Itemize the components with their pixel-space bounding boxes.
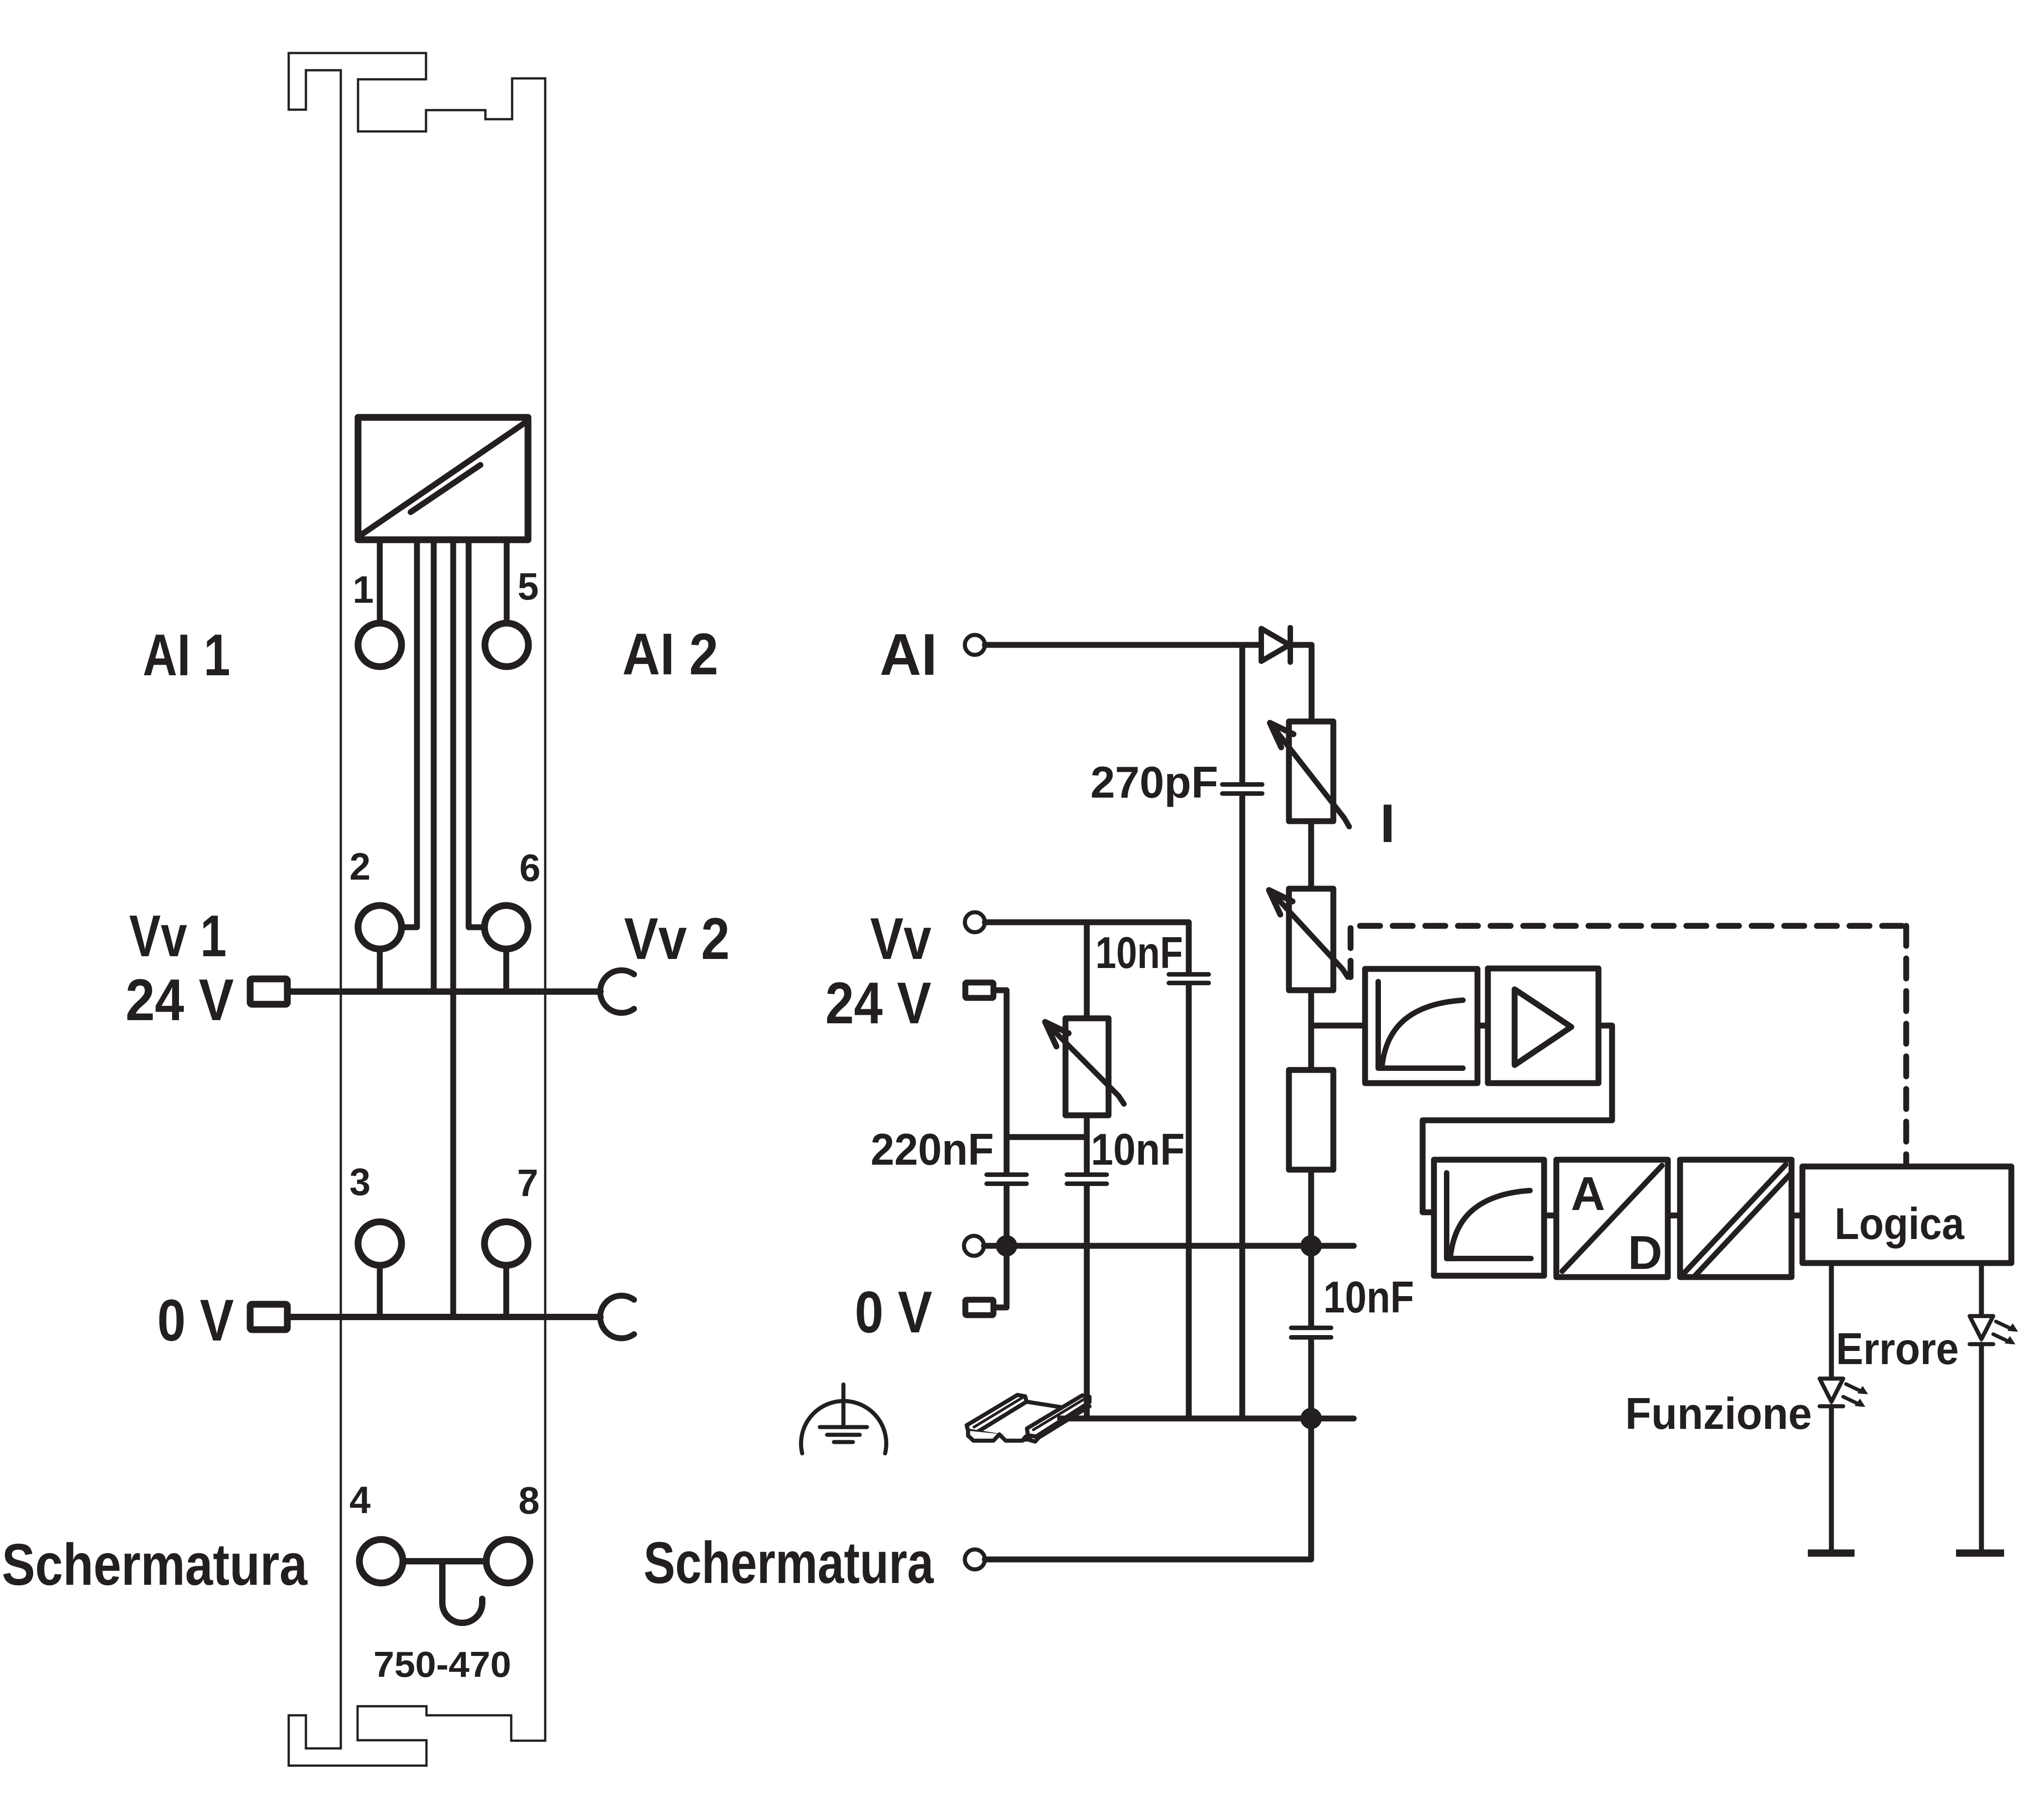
AI terminal circle bbox=[965, 635, 985, 655]
wire 270pF to earth rail bbox=[1240, 796, 1245, 1418]
svg-text:0 V: 0 V bbox=[157, 1287, 234, 1353]
svg-text:10nF: 10nF bbox=[1323, 1272, 1414, 1322]
24V bus bar (module) bbox=[291, 988, 601, 995]
pin 7 clamp circle bbox=[484, 1222, 528, 1265]
variable resistor R4 arrow bbox=[1048, 1025, 1124, 1104]
pin 1 clamp circle bbox=[358, 623, 402, 667]
electronics block with diagonal (module) bbox=[358, 417, 528, 540]
0V female contact arc (module right) bbox=[600, 1296, 634, 1338]
wire Schermatura to earth rail bbox=[985, 1418, 1311, 1559]
wire Logica to Errore LED bbox=[1979, 1263, 1984, 1316]
wire pin 7 to 0V bus bbox=[504, 1265, 509, 1314]
0V male contact square (module) bbox=[250, 1304, 287, 1330]
junction node 0V-main column bbox=[1301, 1235, 1322, 1256]
wire Vv terminal to 10nF cap 1 bbox=[985, 922, 1189, 973]
variable resistor R2 arrow bbox=[1272, 892, 1348, 977]
svg-text:Schermatura: Schermatura bbox=[2, 1531, 308, 1597]
variable resistor R2 (gain adjust) bbox=[1289, 889, 1333, 990]
diode D1 cathode bar bbox=[1288, 628, 1293, 662]
svg-text:750-470: 750-470 bbox=[373, 1644, 511, 1684]
wire F1 to amplifier bbox=[1477, 1023, 1488, 1029]
wire diode cathode to main column bbox=[1291, 645, 1312, 721]
isolation double diagonal bbox=[1685, 1165, 1790, 1275]
branch Vv to variable resistor R4 bbox=[1084, 922, 1090, 1018]
svg-text:Vv 1: Vv 1 bbox=[129, 903, 227, 969]
wire pin 3 to 0V bus bbox=[377, 1265, 383, 1314]
resistor R3 bbox=[1289, 1070, 1333, 1170]
wire block to 24V bus (bundle line 2) bbox=[431, 540, 437, 989]
svg-text:I: I bbox=[1380, 793, 1395, 854]
wire Funzione LED to ground bbox=[1829, 1406, 1834, 1553]
LED Errore symbol bbox=[1970, 1316, 1993, 1339]
wire 10nF C3 to earth rail bbox=[1308, 1340, 1314, 1418]
Schermatura terminal circle bbox=[965, 1549, 985, 1569]
filter F2 curve bbox=[1451, 1191, 1530, 1254]
svg-text:7: 7 bbox=[517, 1162, 538, 1204]
module body left edge bbox=[340, 70, 342, 1748]
wire pin 6 to 24V bus bbox=[504, 949, 509, 989]
wire tap to filter 1 bbox=[1311, 1023, 1365, 1029]
svg-text:Logica: Logica bbox=[1835, 1199, 1965, 1249]
wire Errore LED to ground bbox=[1979, 1344, 1984, 1553]
pin 2 clamp circle bbox=[358, 905, 402, 949]
electronics block main diagonal bbox=[363, 423, 525, 534]
pin 8 clamp circle bbox=[486, 1539, 530, 1583]
node branch to 270pF bbox=[1240, 645, 1245, 783]
diode D1 bbox=[1261, 629, 1289, 661]
filter F1 axes bbox=[1378, 982, 1463, 1068]
svg-text:2: 2 bbox=[349, 845, 371, 888]
svg-text:24 V: 24 V bbox=[126, 967, 234, 1033]
capacitor 10nF C3 plates bbox=[1291, 1328, 1331, 1337]
amplifier triangle bbox=[1515, 989, 1571, 1065]
A/D diagonal bbox=[1562, 1166, 1662, 1271]
svg-text:270pF: 270pF bbox=[1090, 757, 1218, 807]
wire block to pin 5 bbox=[504, 540, 510, 622]
filter box F2 bbox=[1434, 1160, 1544, 1276]
svg-text:6: 6 bbox=[519, 847, 541, 889]
svg-text:D: D bbox=[1628, 1226, 1662, 1279]
svg-text:Vv 2: Vv 2 bbox=[624, 905, 730, 972]
earth rail wire bbox=[1060, 1416, 1354, 1422]
ground bar left bbox=[1808, 1549, 1855, 1557]
wire block to pin 6 (bundle line 4) bbox=[469, 540, 482, 927]
svg-text:AI: AI bbox=[880, 621, 937, 687]
svg-text:24 V: 24 V bbox=[825, 970, 931, 1036]
svg-text:Schermatura: Schermatura bbox=[644, 1530, 934, 1596]
dashed control line from R2 bbox=[1348, 928, 1354, 977]
24V female contact arc (module right) bbox=[600, 970, 634, 1013]
variable resistor R4 bbox=[1065, 1018, 1109, 1115]
pin 4 clamp circle bbox=[359, 1539, 403, 1583]
wire R2 to R3 with tap bbox=[1308, 990, 1314, 1070]
svg-text:Funzione: Funzione bbox=[1625, 1389, 1812, 1438]
wire block to pin 2 (bundle line 1) bbox=[403, 540, 417, 927]
wire block to 0V bus (bundle line 3) bbox=[450, 540, 456, 1314]
wire AI terminal to diode bbox=[985, 642, 1261, 648]
shield hook wire bbox=[442, 1561, 482, 1623]
wire pin 2 to 24V bus bbox=[377, 949, 383, 989]
variable resistor R1 (I adjust) bbox=[1289, 721, 1333, 821]
0V male contact square (schematic) bbox=[965, 1300, 993, 1315]
wire R4 to 10nF cap 2 bbox=[1084, 1115, 1090, 1173]
LED Funzione symbol bbox=[1820, 1379, 1843, 1402]
svg-text:5: 5 bbox=[518, 565, 539, 608]
wire 220nF to 0V node bbox=[1004, 1186, 1010, 1246]
wire 10nF C2 to earth rail bbox=[1084, 1186, 1090, 1418]
svg-text:4: 4 bbox=[349, 1479, 371, 1521]
electronics block short diagonal bbox=[411, 465, 480, 512]
wire 10nF C1 to earth rail bbox=[1186, 985, 1192, 1418]
wire R3 to 0V rail bbox=[1308, 1170, 1314, 1246]
pin 6 clamp circle bbox=[484, 905, 528, 949]
0V terminal circle bbox=[964, 1236, 984, 1256]
capacitor 10nF C2 plates bbox=[1067, 1175, 1107, 1184]
filter box F1 bbox=[1365, 969, 1477, 1083]
svg-text:10nF: 10nF bbox=[1091, 1124, 1185, 1174]
svg-text:10nF: 10nF bbox=[1095, 928, 1183, 978]
capacitor 10nF C1 plates bbox=[1169, 974, 1209, 983]
wire F2 to A/D bbox=[1544, 1213, 1556, 1219]
wire 24V contact down to 220nF bbox=[996, 990, 1007, 1173]
24V male contact square (module) bbox=[250, 979, 287, 1004]
0V bus bar (module) bbox=[291, 1314, 601, 1320]
junction node earth rail-main column bbox=[1301, 1408, 1322, 1429]
filter F1 curve bbox=[1382, 1000, 1463, 1064]
0V rail wire bbox=[984, 1243, 1354, 1249]
variable resistor R1 arrow bbox=[1272, 725, 1349, 827]
module bottom latch outline bbox=[289, 1706, 545, 1766]
ground bar right bbox=[1956, 1549, 2004, 1557]
svg-text:AI 2: AI 2 bbox=[622, 621, 718, 687]
svg-text:AI 1: AI 1 bbox=[143, 622, 230, 688]
capacitor 220nF plates bbox=[987, 1175, 1027, 1184]
svg-text:Errore: Errore bbox=[1836, 1324, 1959, 1374]
filter F2 axes bbox=[1447, 1173, 1531, 1259]
wire 0V contact up to node bbox=[995, 1248, 1007, 1307]
wire 0V rail to 10nF cap 3 bbox=[1308, 1246, 1314, 1326]
wire amplifier to filter F2 bbox=[1423, 1026, 1612, 1212]
amplifier box U1 bbox=[1488, 968, 1598, 1083]
DIN rail icon bbox=[967, 1395, 1090, 1442]
Vv terminal circle bbox=[965, 912, 985, 932]
svg-text:1: 1 bbox=[353, 568, 374, 611]
wire block to pin 1 bbox=[377, 540, 383, 622]
pin 3 clamp circle bbox=[358, 1222, 402, 1265]
A/D converter box bbox=[1556, 1160, 1668, 1277]
junction node 0V-220nF bbox=[996, 1235, 1017, 1256]
svg-text:220nF: 220nF bbox=[871, 1124, 994, 1174]
module top latch outline bbox=[289, 53, 545, 131]
module body right edge bbox=[544, 78, 547, 1741]
wire Logica to Funzione LED bbox=[1829, 1263, 1834, 1379]
pin 5 clamp circle bbox=[485, 623, 528, 667]
svg-text:0 V: 0 V bbox=[855, 1279, 932, 1345]
24V male contact square (schematic) bbox=[965, 983, 993, 998]
Logica box bbox=[1802, 1167, 2011, 1263]
svg-text:3: 3 bbox=[349, 1161, 371, 1203]
wire A/D to isolation bbox=[1668, 1213, 1680, 1219]
svg-text:Vv: Vv bbox=[870, 905, 931, 972]
functional earth symbol bbox=[842, 1384, 846, 1425]
capacitor 270pF plates bbox=[1222, 784, 1262, 794]
wire isolation to Logica bbox=[1792, 1213, 1802, 1219]
svg-text:A: A bbox=[1571, 1167, 1605, 1220]
galvanic isolation box bbox=[1680, 1160, 1792, 1277]
svg-text:8: 8 bbox=[518, 1479, 540, 1522]
wire R1 to R2 bbox=[1308, 821, 1314, 889]
wire link 24V column to R4 column bbox=[1007, 1134, 1087, 1140]
shield link bar pins 4-8 bbox=[403, 1558, 486, 1564]
